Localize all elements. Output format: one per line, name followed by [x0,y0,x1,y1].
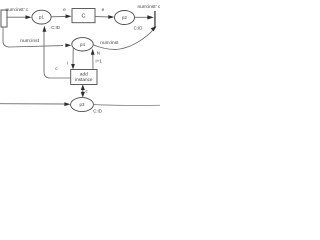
svg-text:p4: p4 [80,42,85,47]
svg-text:i: i [67,60,68,66]
svg-text:num:inst’ c: num:inst’ c [6,7,29,13]
wire add-instance to p1, label c [44,31,71,78]
svg-text:e: e [63,8,66,13]
wire from left edge into p3 [0,103,65,105]
svg-text:p3: p3 [80,102,85,107]
wire p4 to add-instance, label i [72,48,74,65]
arrowhead into p4 [65,43,71,47]
svg-text:e: e [102,8,105,13]
transition add instance [71,70,97,85]
svg-text:num:inst: num:inst [100,40,119,46]
svg-text:C:ID: C:ID [93,109,102,114]
transition T_right [154,11,155,28]
arrowhead into add-instance bottom [81,85,85,90]
place p2 [115,11,135,25]
svg-text:instance: instance [75,77,93,82]
svg-text:i+1: i+1 [96,58,103,64]
place p1 [32,10,51,24]
transition C [72,9,95,23]
wire T_left to p4, label num:inst [3,27,63,47]
wire C to p2 [95,16,109,18]
svg-text:C: C [82,13,86,19]
arrowhead into p1 [26,15,32,19]
wire T_left to p1 [7,16,27,18]
svg-text:num:inst’ c: num:inst’ c [138,4,161,10]
wire p3 to right edge [93,104,160,107]
arrowhead into add-instance top [71,64,75,69]
arrowhead into p2 [108,15,114,19]
svg-text:N: N [97,51,100,56]
svg-text:p2: p2 [122,15,127,20]
arrowhead into C [66,14,72,18]
svg-text:C:ID: C:ID [134,26,143,31]
arrowhead into T_right [147,15,154,19]
place p3 [71,98,94,112]
wire p1 to C [51,15,66,17]
arrowhead into T_right bottom [151,26,157,31]
wire add-instance to p3 double arrow, label c [82,85,84,96]
arrowhead into p4 bottom [91,49,95,55]
transition T_left [1,10,7,27]
arrowhead into p3 top [81,92,85,98]
wire add-instance to p4, label i+1 [92,54,94,70]
svg-text:C:ID: C:ID [51,25,60,30]
wire p2 to T_right [135,16,148,18]
wire p4 to T_right, label num:inst [93,30,153,50]
svg-text:p1: p1 [39,15,44,20]
arrowhead into p1 bottom [43,26,47,32]
arrowhead into p3 left [64,102,70,106]
place p4 [72,38,93,51]
svg-text:num:inst: num:inst [20,38,39,44]
